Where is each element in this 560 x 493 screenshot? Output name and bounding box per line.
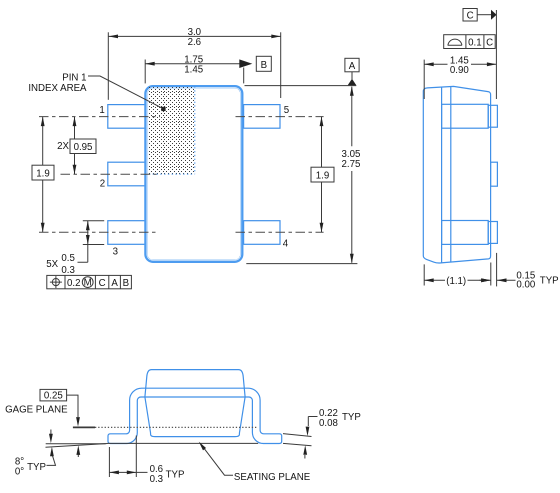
svg-text:INDEX AREA: INDEX AREA: [28, 83, 87, 94]
dim 0.22/0.08 witness lines: [283, 434, 312, 446]
angle reference horizontal line: [46, 443, 106, 445]
svg-text:0.5: 0.5: [61, 253, 74, 264]
angle leader: [47, 454, 56, 466]
svg-text:0.08: 0.08: [319, 418, 338, 429]
dim 0.6/0.3 extension lines: [109, 436, 136, 478]
lead pin4: [244, 221, 280, 245]
M circle modifier: [82, 277, 93, 288]
dim 1.75/1.45 extension line left: [144, 60, 146, 84]
svg-text:C: C: [99, 278, 106, 289]
profile feature control frame: [444, 35, 496, 49]
svg-text:C: C: [486, 38, 493, 49]
svg-text:TYP: TYP: [342, 412, 361, 423]
body outline bottom view: [145, 370, 245, 437]
lead pin2: [108, 162, 146, 186]
pin 1 index area dotted fill: [149, 87, 194, 174]
dim 0.15/0.00 extension line: [496, 253, 498, 287]
dim 1.9 right line: [321, 117, 323, 233]
svg-text:(1.1): (1.1): [446, 276, 466, 287]
datum C box: [463, 9, 477, 22]
svg-text:A: A: [111, 278, 118, 289]
datum A extension top: [245, 85, 357, 87]
datum A extension bottom: [246, 263, 357, 265]
svg-text:2.75: 2.75: [342, 159, 361, 170]
datum C stem and triangle: [477, 14, 491, 16]
package body outline inner seam: [147, 88, 241, 261]
dim 0.95 box: [70, 139, 96, 154]
wire: centerline row1 left: [39, 116, 160, 118]
svg-text:0°: 0°: [15, 466, 24, 477]
svg-text:2X: 2X: [57, 141, 69, 152]
svg-text:1.45: 1.45: [184, 64, 203, 75]
dim 1.9 left box: [32, 165, 54, 180]
dim 1.9 right box: [311, 167, 334, 182]
dim 3.0/2.6 line: [109, 35, 281, 37]
side middle lead stub pin2: [491, 162, 498, 186]
svg-text:0.1: 0.1: [468, 38, 481, 49]
wire: centerline row3 left: [39, 231, 157, 233]
dim 3.0/2.6 extension line right: [280, 32, 282, 98]
svg-text:0.3: 0.3: [150, 474, 163, 485]
angle slanted line: [46, 444, 108, 448]
svg-text:2: 2: [100, 178, 105, 189]
svg-text:0.95: 0.95: [74, 142, 93, 153]
svg-text:0.2: 0.2: [67, 278, 80, 289]
dim 0.5/0.3 witness lines: [83, 221, 104, 245]
lead pin1: [108, 105, 146, 129]
svg-text:0.25: 0.25: [44, 391, 63, 402]
svg-text:0.3: 0.3: [61, 265, 74, 276]
dim 0.22/0.08 arrow down: [308, 417, 317, 427]
svg-text:C: C: [467, 11, 474, 22]
svg-text:A: A: [349, 61, 356, 72]
angle arrow down: [50, 430, 52, 435]
angle arrow up: [77, 452, 79, 457]
dim (1.1) line: [424, 279, 491, 281]
gull-wing leads outline: [108, 388, 282, 443]
feature control frame top view: [47, 275, 132, 289]
svg-text:TYP: TYP: [540, 275, 559, 286]
wire: centerline row1 right: [236, 116, 324, 118]
svg-text:0.90: 0.90: [450, 65, 469, 76]
svg-text:0.00: 0.00: [516, 280, 535, 291]
dim (1.1) extension lines: [424, 263, 491, 286]
svg-text:2.6: 2.6: [188, 37, 201, 48]
dim 1.45/0.90 extension left: [423, 60, 425, 99]
dim 3.05/2.75 line: [351, 87, 353, 263]
svg-text:1.9: 1.9: [316, 171, 329, 182]
svg-text:TYP: TYP: [27, 462, 46, 473]
seating plane line: [108, 442, 259, 444]
wire: centerline row3 right: [236, 231, 324, 233]
lead pin3: [108, 221, 146, 245]
dim 3.0/2.6 extension line left: [107, 32, 109, 100]
datum A stem and triangle: [351, 72, 353, 80]
side lead row bottom tip: [488, 222, 497, 244]
surface profile symbol: [448, 39, 462, 45]
dim 1.75/1.45 extension line right: [243, 68, 245, 84]
wire: centerline row2: [61, 173, 157, 175]
datum A box: [345, 58, 359, 72]
pin 1 index area dotted border: [149, 86, 195, 174]
svg-text:B: B: [123, 278, 129, 289]
datum B box: [256, 56, 271, 71]
side body outline: [423, 86, 490, 263]
datum C extension line: [495, 10, 497, 99]
dim 1.75/1.45 line: [145, 63, 239, 65]
gage plane dotted line: [95, 426, 257, 428]
dim 0.5/0.3 line: [78, 221, 88, 263]
side lead row bottom: [442, 221, 489, 245]
gage leader: [67, 395, 78, 417]
dim 0.22/0.08 arrow up: [304, 455, 306, 459]
svg-text:3: 3: [113, 247, 118, 258]
dim 1.45/0.90 line: [424, 63, 496, 65]
dim 2X 0.95 line: [74, 117, 76, 175]
position symbol: [52, 279, 59, 286]
svg-text:4: 4: [283, 238, 289, 249]
side lead row top tip: [488, 105, 497, 127]
lead pin5: [244, 105, 280, 129]
svg-text:5: 5: [284, 105, 289, 116]
side inner vertical lines: [442, 87, 451, 263]
pin1 leader dot: [161, 107, 165, 111]
svg-text:1.9: 1.9: [36, 169, 49, 180]
svg-text:B: B: [261, 60, 267, 71]
dim 0.15/0.00 arrows: [480, 279, 516, 281]
package body outline: [146, 87, 242, 262]
svg-text:PIN 1: PIN 1: [62, 72, 86, 83]
seating plane leader: [203, 446, 234, 475]
pin1 leader line: [88, 76, 164, 109]
svg-text:TYP: TYP: [166, 470, 185, 481]
dim 1.9 left line: [42, 117, 44, 233]
svg-text:SEATING PLANE: SEATING PLANE: [234, 472, 311, 483]
svg-text:M: M: [84, 278, 92, 289]
dim 0.6/0.3 line: [109, 471, 147, 473]
svg-text:1: 1: [99, 105, 104, 116]
dim 0.25 box: [40, 389, 67, 401]
svg-text:5X: 5X: [46, 259, 58, 270]
gage plane solid segment: [73, 426, 95, 428]
side lead row top: [442, 104, 489, 128]
svg-text:GAGE PLANE: GAGE PLANE: [5, 404, 68, 415]
